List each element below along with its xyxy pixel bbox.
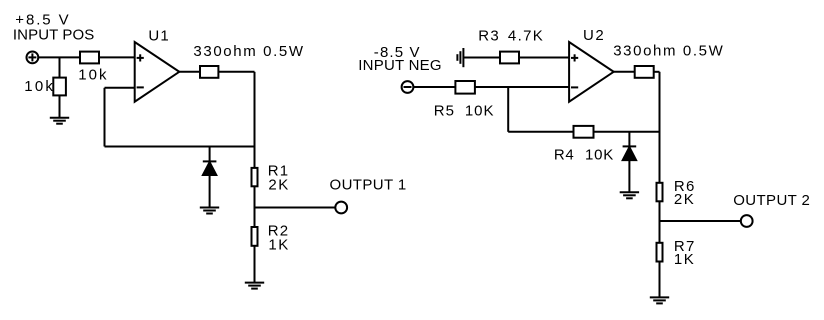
svg-text:U2: U2 — [583, 27, 605, 44]
svg-text:2K: 2K — [268, 177, 289, 194]
svg-text:4.7K: 4.7K — [508, 27, 544, 44]
svg-text:330ohm 0.5W: 330ohm 0.5W — [193, 43, 304, 60]
svg-text:INPUT NEG: INPUT NEG — [358, 57, 442, 74]
svg-text:10K: 10K — [465, 102, 495, 119]
svg-text:330ohm 0.5W: 330ohm 0.5W — [613, 42, 724, 59]
svg-text:10k: 10k — [24, 78, 55, 95]
svg-text:1K: 1K — [268, 237, 289, 254]
svg-text:2K: 2K — [674, 191, 695, 208]
svg-text:OUTPUT 1: OUTPUT 1 — [330, 176, 407, 193]
svg-text:R4: R4 — [554, 147, 574, 164]
svg-text:OUTPUT 2: OUTPUT 2 — [733, 192, 810, 209]
svg-text:R3: R3 — [478, 27, 500, 44]
svg-text:INPUT POS: INPUT POS — [13, 27, 94, 44]
svg-text:U1: U1 — [148, 27, 170, 44]
svg-text:R5: R5 — [434, 102, 455, 119]
svg-text:10k: 10k — [78, 67, 108, 84]
svg-text:1K: 1K — [674, 251, 695, 268]
svg-text:10K: 10K — [585, 147, 614, 164]
